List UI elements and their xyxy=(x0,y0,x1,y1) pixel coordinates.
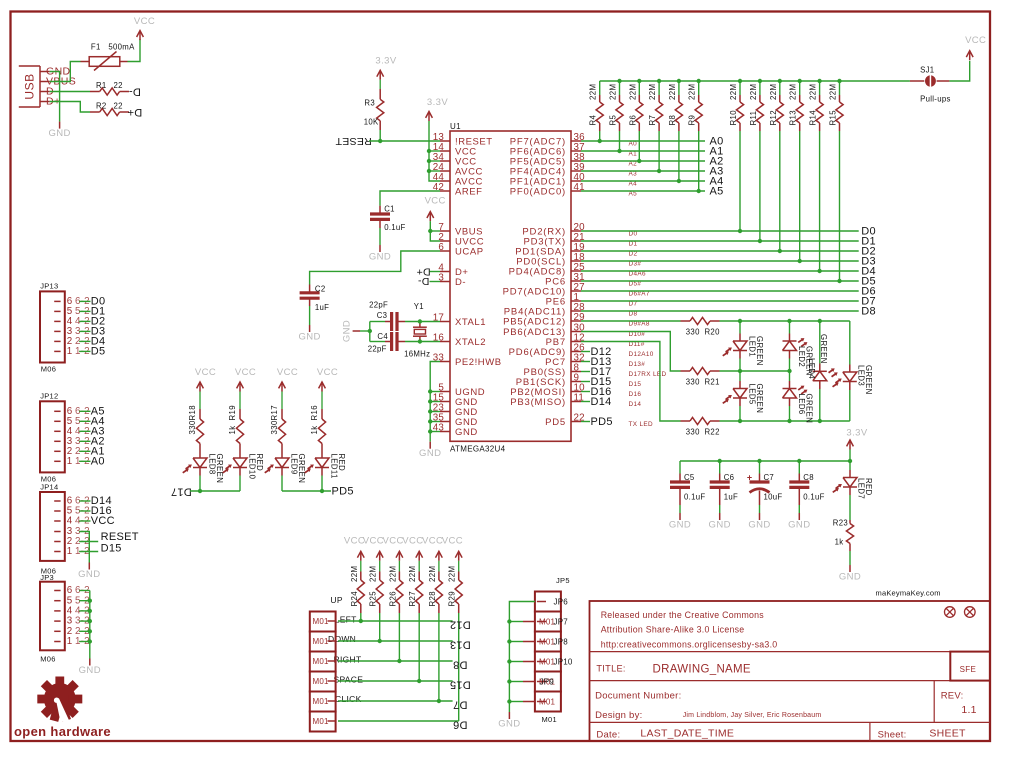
ground GND below C8 xyxy=(798,513,800,520)
svg-text:XTAL1: XTAL1 xyxy=(455,317,486,328)
junction VCC pin 14 xyxy=(427,149,431,153)
svg-text:M01: M01 xyxy=(313,717,330,726)
JP5 pin 5 xyxy=(537,681,546,683)
resistor R17 330 xyxy=(281,392,283,410)
title block sheet separator xyxy=(869,722,871,741)
svg-text:JP14: JP14 xyxy=(40,482,58,491)
U1 pin 24 AVCC xyxy=(440,170,450,172)
wire PD5 net xyxy=(282,490,331,492)
wire D+ to pin 4 xyxy=(430,271,441,273)
svg-text:Date:: Date: xyxy=(596,729,620,740)
U1 pin 32 PC7 xyxy=(571,361,581,363)
svg-text:PF0(ADC0): PF0(ADC0) xyxy=(510,186,566,197)
wire net D8 xyxy=(581,310,859,312)
U1 pin 27 PD7(ADC10) xyxy=(571,290,581,292)
svg-text:GND: GND xyxy=(298,332,320,343)
JP5 pin 3 xyxy=(537,641,546,643)
svg-text:Jim Lindblom, Jay Silver, Eric: Jim Lindblom, Jay Silver, Eric Rosenbaum xyxy=(683,712,822,719)
svg-text:DOWN: DOWN xyxy=(328,634,356,644)
power VCC arrow above R27 xyxy=(418,551,420,561)
JP3 pin 2 xyxy=(54,630,60,632)
svg-text:A0: A0 xyxy=(91,456,105,468)
U1 pin 39 PF4(ADC4) xyxy=(571,170,581,172)
U1 pin 20 PD2(RX) xyxy=(571,230,581,232)
resistor R18 330 xyxy=(199,392,201,410)
svg-text:R29: R29 xyxy=(448,591,457,607)
JP13 pin 2 xyxy=(54,340,60,342)
svg-text:D5: D5 xyxy=(91,346,106,358)
wire net A1 xyxy=(581,150,705,152)
svg-text:3: 3 xyxy=(438,272,444,283)
capacitor C6 1uF xyxy=(719,461,721,474)
wire JP5 pin 6 xyxy=(509,701,523,703)
svg-text:M01: M01 xyxy=(539,698,556,707)
junction bus R8 xyxy=(677,79,681,83)
svg-text:D15: D15 xyxy=(101,542,122,554)
JP5 pin 1 xyxy=(537,601,546,603)
svg-text:0.1uF: 0.1uF xyxy=(384,223,405,232)
svg-text:GND: GND xyxy=(48,128,70,139)
junction D2 with R12 xyxy=(778,249,782,253)
JP12 pin 2 xyxy=(54,450,60,452)
svg-text:PE2!HWB: PE2!HWB xyxy=(455,357,502,368)
U1 pin 4 D+ xyxy=(440,271,450,273)
svg-text:PB3(MISO): PB3(MISO) xyxy=(510,397,566,408)
svg-text:22M: 22M xyxy=(769,84,778,100)
junction VBUS pin 7 xyxy=(428,229,432,233)
svg-text:VCC: VCC xyxy=(317,367,338,378)
junction rail/LED7 xyxy=(848,459,852,463)
U1 pin 9 PB1(SCK) xyxy=(571,381,581,383)
wire JP12 pin 5 to A4 xyxy=(79,420,90,422)
U1 pin 33 PE2!HWB xyxy=(440,361,450,363)
svg-text:M01: M01 xyxy=(313,657,330,666)
svg-text:3.3V: 3.3V xyxy=(375,56,396,67)
svg-text:DRAWING_NAME: DRAWING_NAME xyxy=(653,664,751,676)
svg-text:UCAP: UCAP xyxy=(455,246,484,257)
svg-text:1k: 1k xyxy=(835,538,844,547)
JP13 pin 6 xyxy=(54,300,60,302)
svg-text:R19: R19 xyxy=(228,405,237,421)
ground GND below C6 xyxy=(719,513,721,520)
svg-text:U1: U1 xyxy=(450,122,461,131)
svg-text:TITLE:: TITLE: xyxy=(596,663,625,673)
svg-text:D12: D12 xyxy=(450,618,471,630)
title block title separator xyxy=(590,680,991,682)
wire GND pins chain xyxy=(429,392,431,442)
svg-text:M01: M01 xyxy=(313,697,330,706)
svg-text:4: 4 xyxy=(67,516,73,527)
wire net A2 xyxy=(581,160,705,162)
svg-text:R28: R28 xyxy=(428,591,437,607)
junction AVCC pin 24 xyxy=(427,169,431,173)
resistor R4 22M xyxy=(599,81,601,95)
junction JP3 pin 3 xyxy=(88,619,92,623)
wire JP3 pin 3 xyxy=(79,620,90,622)
svg-text:R11: R11 xyxy=(749,111,758,126)
svg-text:VCC: VCC xyxy=(442,536,463,547)
JP14 pin 5 xyxy=(54,510,60,512)
svg-text:D+: D+ xyxy=(127,106,142,118)
svg-text:C2: C2 xyxy=(315,284,326,293)
svg-text:330: 330 xyxy=(686,428,700,437)
svg-text:SPACE: SPACE xyxy=(334,675,364,685)
svg-text:Pull-ups: Pull-ups xyxy=(920,95,951,104)
svg-text:R27: R27 xyxy=(408,591,417,607)
resistor R2 22 xyxy=(90,111,100,113)
wire PE2!HWB to gnd chain xyxy=(430,362,440,392)
svg-text:22M: 22M xyxy=(628,84,637,100)
svg-text:VCC: VCC xyxy=(382,536,403,547)
U1 pin 35 GND xyxy=(440,421,450,423)
svg-text:GND: GND xyxy=(78,569,100,580)
LED1 GREEN xyxy=(739,321,741,334)
junction RESET/R3 xyxy=(378,139,382,143)
junction bus R14 xyxy=(817,79,821,83)
resistor R11 22M xyxy=(759,81,761,95)
resistor R8 22M xyxy=(678,81,680,95)
resistor R23 1k xyxy=(849,520,851,524)
power VCC arrow above R24 xyxy=(360,551,362,561)
JP14 pin 6 xyxy=(54,500,60,502)
wire JP5 pin 4 xyxy=(509,661,523,663)
junction bus R5 xyxy=(617,79,621,83)
svg-text:3.3V: 3.3V xyxy=(427,97,448,108)
capacitor C7 10uF xyxy=(759,461,761,474)
connector M01 key pad 3 xyxy=(310,652,336,672)
wire cap rail xyxy=(680,460,850,462)
title block SFE cell xyxy=(950,652,990,681)
svg-text:22M: 22M xyxy=(668,84,677,100)
svg-text:VCC: VCC xyxy=(195,367,216,378)
junction LED8/D17 xyxy=(198,489,202,493)
svg-text:VCC: VCC xyxy=(422,536,443,547)
svg-text:0.1uF: 0.1uF xyxy=(684,492,705,501)
junction bus R9 xyxy=(697,79,701,83)
wire key row D8 xyxy=(338,660,453,662)
U1 pin 3 D- xyxy=(440,281,450,283)
svg-text:R3: R3 xyxy=(364,99,375,108)
wire JP14 pin 6 xyxy=(79,500,90,502)
resistor R27 22M xyxy=(418,561,420,572)
svg-text:C4: C4 xyxy=(377,332,388,341)
svg-text:RED: RED xyxy=(864,478,873,496)
junction JP5 pin 6 xyxy=(507,699,511,703)
wire net A4 xyxy=(581,180,705,182)
JP13 pin 1 xyxy=(54,350,60,352)
resistor R24 22M xyxy=(360,561,362,572)
junction LED2 top xyxy=(787,319,791,323)
svg-text:C3: C3 xyxy=(377,311,388,320)
LED LED11 RED xyxy=(321,452,323,459)
junction LED6 bottom xyxy=(787,419,791,423)
svg-text:D13#: D13# xyxy=(629,361,646,368)
wire net D6 xyxy=(581,290,859,292)
svg-text:JP6: JP6 xyxy=(554,598,569,607)
wire D- to pin 3 xyxy=(430,281,441,283)
svg-text:22M: 22M xyxy=(729,84,738,100)
svg-text:AREF: AREF xyxy=(455,186,483,197)
svg-text:GND: GND xyxy=(79,665,101,676)
resistor R5 22M xyxy=(619,81,621,95)
svg-text:R9: R9 xyxy=(688,115,697,126)
U1 pin 36 PF7(ADC7) xyxy=(571,140,581,142)
junction JP5 pin 4 xyxy=(507,659,511,663)
svg-text:1: 1 xyxy=(67,346,73,357)
wire net D3 xyxy=(581,260,859,262)
wire 3.3V to VCC/AVCC pins xyxy=(429,121,440,181)
U1 pin 31 PC6 xyxy=(571,280,581,282)
resistor R28 22M xyxy=(438,561,440,572)
resistor R12 22M xyxy=(779,81,781,95)
svg-text:D7: D7 xyxy=(453,698,468,710)
svg-text:10K: 10K xyxy=(364,118,379,127)
svg-text:M01: M01 xyxy=(313,617,330,626)
svg-text:M01: M01 xyxy=(313,637,330,646)
wire D17 net xyxy=(190,490,240,492)
svg-text:LAST_DATE_TIME: LAST_DATE_TIME xyxy=(640,728,734,740)
U1 pin 44 AVCC xyxy=(440,180,450,182)
wire net D0 xyxy=(581,230,859,232)
LED LED10 RED xyxy=(239,452,241,459)
svg-text:3.3V: 3.3V xyxy=(846,428,867,439)
junction C6 xyxy=(718,459,722,463)
svg-text:R24: R24 xyxy=(350,591,359,607)
svg-text:D13: D13 xyxy=(450,638,471,650)
svg-text:R13: R13 xyxy=(789,110,798,126)
wire JP5 pin 1 xyxy=(509,602,535,713)
ground GND below C2 xyxy=(309,325,311,332)
svg-text:JP13: JP13 xyxy=(40,282,58,291)
svg-text:33: 33 xyxy=(433,352,445,363)
svg-text:1: 1 xyxy=(67,636,73,647)
svg-text:22M: 22M xyxy=(369,566,378,582)
power VCC arrow above R28 xyxy=(438,551,440,561)
svg-text:USB: USB xyxy=(23,73,37,99)
svg-text:D-: D- xyxy=(129,86,141,98)
svg-text:GREEN: GREEN xyxy=(819,334,828,364)
svg-text:17: 17 xyxy=(433,312,444,323)
wire JP3 pin 5 xyxy=(79,600,90,602)
junction JP5 pin 5 xyxy=(507,679,511,683)
wire key row D12 xyxy=(338,620,453,622)
svg-text:R1: R1 xyxy=(96,81,107,90)
capacitor C5 0.1uF xyxy=(679,461,681,474)
U1 pin 41 PF0(ADC0) xyxy=(571,190,581,192)
svg-text:1: 1 xyxy=(67,456,73,467)
svg-text:JP7: JP7 xyxy=(554,618,569,627)
svg-text:GND: GND xyxy=(669,520,691,531)
svg-text:R7: R7 xyxy=(648,115,657,126)
junction C8 xyxy=(797,459,801,463)
svg-text:GND: GND xyxy=(369,252,391,263)
U1 pin 23 GND xyxy=(440,411,450,413)
svg-text:RED: RED xyxy=(255,454,264,472)
junction bus R11 xyxy=(758,79,762,83)
svg-text:GREEN: GREEN xyxy=(755,336,764,366)
LED6 GREEN xyxy=(789,371,791,381)
svg-text:D17RX LED: D17RX LED xyxy=(629,371,667,378)
U1 pin 1 PE6 xyxy=(571,300,581,302)
svg-text:R4: R4 xyxy=(589,114,598,125)
svg-text:330: 330 xyxy=(686,378,700,387)
svg-text:GND: GND xyxy=(419,448,441,459)
svg-text:http:creativecommons.orglicens: http:creativecommons.orglicensesby-sa3.0 xyxy=(601,640,778,650)
resistor R6 22M xyxy=(638,81,640,95)
svg-text:GND: GND xyxy=(839,572,861,583)
circle-x symbol 1 xyxy=(945,607,956,618)
svg-text:22M: 22M xyxy=(350,566,359,582)
svg-text:Released under the Creative Co: Released under the Creative Commons xyxy=(601,610,765,620)
svg-text:R15: R15 xyxy=(829,110,838,126)
U1 pin 10 PB2(MOSI) xyxy=(571,391,581,393)
wire JP14 pin 1 D15 xyxy=(79,551,98,553)
fuse F1 500mA xyxy=(81,61,90,63)
svg-text:R12: R12 xyxy=(769,110,778,126)
svg-text:22M: 22M xyxy=(648,84,657,100)
ground GND below JP5 xyxy=(508,712,510,719)
svg-text:M01: M01 xyxy=(313,677,330,686)
wire JP14 pin 3 to ground xyxy=(79,532,89,563)
svg-text:Attribution Share-Alike 3.0 Li: Attribution Share-Alike 3.0 License xyxy=(601,625,745,635)
wire JP3 pin 2 xyxy=(79,630,90,632)
svg-text:M01: M01 xyxy=(542,715,558,724)
resistor R3 10K xyxy=(379,89,381,99)
svg-text:6: 6 xyxy=(438,242,444,253)
svg-text:330: 330 xyxy=(270,420,279,434)
svg-text:GREEN: GREEN xyxy=(755,384,764,414)
wire pin 12 to R22 xyxy=(581,342,681,422)
svg-text:VCC: VCC xyxy=(235,367,256,378)
svg-text:R17: R17 xyxy=(270,405,279,421)
circle-x symbol 2 xyxy=(965,607,976,618)
junction JP5 pin 3 xyxy=(507,639,511,643)
junction LED2 bottom xyxy=(787,369,791,373)
JP12 pin 4 xyxy=(54,430,60,432)
wire net D7 xyxy=(581,300,859,302)
wire pin stub to label D13 xyxy=(581,361,590,363)
resistor R29 22M xyxy=(458,561,460,572)
JP13 pin 5 xyxy=(54,310,60,312)
junction LED4 top xyxy=(818,319,822,323)
svg-text:Design by:: Design by: xyxy=(595,710,642,721)
wire C2 to ground xyxy=(309,306,311,325)
wire JP13 pin 6 to D0 xyxy=(79,300,90,302)
LED5 GREEN xyxy=(739,371,741,381)
wire JP12 pin 4 to A3 xyxy=(79,430,90,432)
svg-text:+: + xyxy=(747,473,752,483)
junction key row R24 xyxy=(359,619,363,623)
wire pin 30 to R21 xyxy=(581,332,681,372)
junction JP3 pin 5 xyxy=(88,599,92,603)
wire JP13 pin 4 to D2 xyxy=(79,320,90,322)
svg-text:JP12: JP12 xyxy=(40,392,58,401)
U1 pin 21 PD3(TX) xyxy=(571,240,581,242)
junction LED5 bottom xyxy=(738,419,742,423)
svg-text:GND: GND xyxy=(748,520,770,531)
junction A2 with R6 xyxy=(637,159,641,163)
capacitor C2 1uF xyxy=(309,285,311,293)
U1 pin 5 UGND xyxy=(440,391,450,393)
svg-text:R18: R18 xyxy=(188,405,197,421)
wire net D1 xyxy=(581,240,859,242)
title block doc separator xyxy=(590,721,991,723)
svg-text:1: 1 xyxy=(67,546,73,557)
svg-text:PD5: PD5 xyxy=(545,417,566,428)
junction GND pin 15 xyxy=(428,399,432,403)
svg-text:GND: GND xyxy=(342,320,353,342)
capacitor C3 22pF xyxy=(385,321,392,323)
wire UCAP to C2 xyxy=(310,251,440,285)
svg-text:R10: R10 xyxy=(729,110,738,126)
junction key row R27 xyxy=(417,679,421,683)
svg-text:maKeymaKey.com: maKeymaKey.com xyxy=(876,589,941,598)
junction LED1 top xyxy=(738,319,742,323)
resistor R14 22M xyxy=(819,81,821,95)
svg-text:VCC: VCC xyxy=(965,35,986,46)
wire net D2 xyxy=(581,250,859,252)
svg-text:GND: GND xyxy=(788,520,810,531)
junction XTAL2 xyxy=(418,339,422,343)
svg-text:R23: R23 xyxy=(833,519,848,528)
svg-text:D14: D14 xyxy=(629,401,642,408)
junction bus R6 xyxy=(637,79,641,83)
U1 pin 15 GND xyxy=(440,401,450,403)
junction D3 with R13 xyxy=(798,259,802,263)
capacitor C4 22pF xyxy=(385,341,392,343)
svg-text:A5: A5 xyxy=(710,186,724,198)
resistor R16 1k xyxy=(321,392,323,410)
resistor R26 22M xyxy=(398,561,400,572)
svg-text:C7: C7 xyxy=(764,473,775,482)
wire net A3 xyxy=(581,170,705,172)
svg-text:C8: C8 xyxy=(803,473,814,482)
svg-text:R8: R8 xyxy=(668,115,677,126)
U1 pin 16 XTAL2 xyxy=(440,341,450,343)
svg-text:1uF: 1uF xyxy=(724,492,738,501)
svg-text:R25: R25 xyxy=(369,591,378,607)
U1 pin 43 GND xyxy=(440,431,450,433)
LED2 GREEN xyxy=(789,321,791,334)
op-amp U1 ATMEGA32U4 body xyxy=(450,131,571,441)
junction JP3 pin 1 xyxy=(88,639,92,643)
wire JP12 pin 2 to A1 xyxy=(79,450,90,452)
svg-text:VCC: VCC xyxy=(134,16,155,27)
resistor R25 22M xyxy=(379,561,381,572)
svg-text:16MHz: 16MHz xyxy=(404,350,430,359)
svg-text:D15: D15 xyxy=(629,381,642,388)
wire net D4 xyxy=(581,270,859,272)
ground GND below chip xyxy=(429,442,431,449)
svg-text:R2: R2 xyxy=(96,101,107,110)
junction GND pin 35 xyxy=(428,419,432,423)
U1 pin 30 PB6(ADC13) xyxy=(571,331,581,333)
svg-text:JP5: JP5 xyxy=(556,576,570,585)
svg-text:22M: 22M xyxy=(829,84,838,100)
JP13 pin 3 xyxy=(54,330,60,332)
svg-text:CLICK: CLICK xyxy=(335,694,362,704)
ground GND below R23 xyxy=(849,565,851,572)
svg-text:SHEET: SHEET xyxy=(929,728,966,740)
junction JP3 pin 4 xyxy=(88,609,92,613)
LED LED9 GREEN xyxy=(281,452,283,459)
U1 pin 42 AREF xyxy=(440,190,450,192)
wire key row D6 xyxy=(338,720,459,722)
svg-text:M06: M06 xyxy=(40,654,56,663)
svg-text:D-: D- xyxy=(417,275,429,287)
junction key row R28 xyxy=(437,699,441,703)
junction GND pin 23 xyxy=(428,409,432,413)
